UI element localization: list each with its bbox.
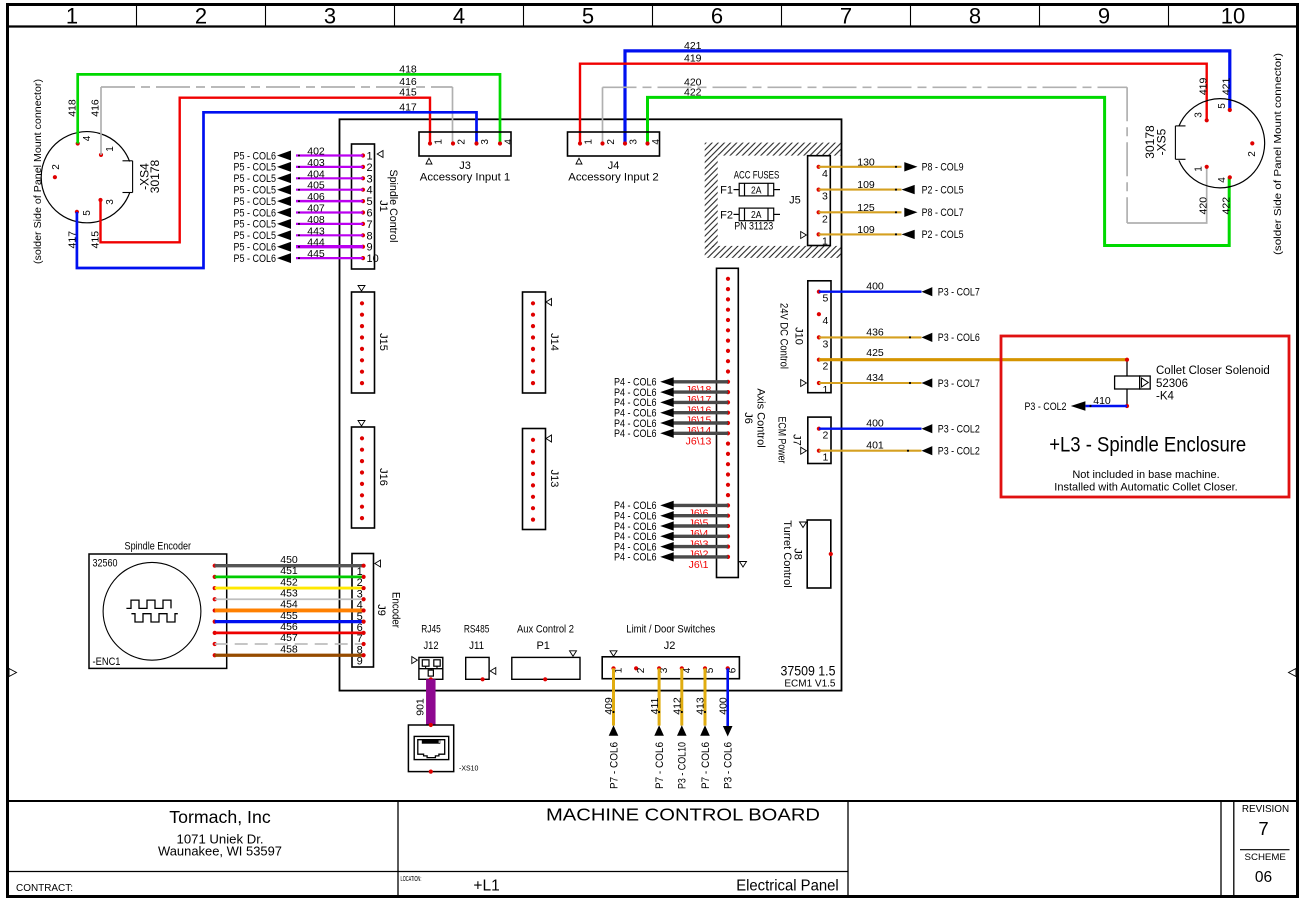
ACC fuses hatched enclosure [705,143,841,156]
svg-text:10: 10 [1221,4,1245,29]
wire 444 purple J1.9 to P5 - COL6 [296,245,363,248]
wire J6\17 to P4 - COL6 [673,390,728,393]
svg-text:P5 - COL5: P5 - COL5 [234,173,277,185]
svg-text:425: 425 [866,347,884,359]
svg-text:Installed with Automatic Colle: Installed with Automatic Collet Closer. [1054,482,1237,494]
svg-text:-XS10: -XS10 [459,766,479,773]
J11 pin dot [481,677,485,681]
svg-text:Spindle Encoder: Spindle Encoder [125,541,192,553]
svg-text:417: 417 [399,101,417,113]
J10 pin 2 [817,358,821,362]
connector J11 box [466,657,489,679]
J6 pin dot 5 [726,318,730,322]
wire J6\1 to P4 - COL6 [673,555,728,558]
svg-text:2: 2 [823,361,829,373]
svg-text:P3 - COL2: P3 - COL2 [1025,401,1067,413]
svg-text:LOCATION:: LOCATION: [401,874,422,883]
wire 400 blue J2.6 to P3 - COL6 [726,668,729,726]
wire 400 blue J7.2 to P3 - COL2 [819,428,922,430]
J3 pin 4 [498,141,502,145]
svg-text:419: 419 [1198,77,1210,95]
J16 pin 5 [360,482,364,486]
wire 408 purple J1.7 to P5 - COL5 [296,223,363,225]
J6 pin dot 11 [726,380,730,384]
wire 402 purple J1.1 to P5 - COL6 [296,154,363,156]
J5 pin 4 [817,165,821,169]
wire 452 encoder to J9.3 [215,587,364,590]
J7 pin 2 [817,427,821,431]
svg-text:52306: 52306 [1156,378,1188,390]
connector J10 box [808,281,831,393]
svg-text:Electrical Panel: Electrical Panel [736,878,839,895]
svg-text:9: 9 [1098,4,1110,29]
J2 pin 5 [703,666,707,670]
left fold mark [9,669,17,677]
J15 pin 6 [360,358,364,362]
wire J6\15 to P4 - COL6 [673,411,728,414]
J16 marker triangle [358,421,365,427]
svg-text:F1: F1 [720,185,733,197]
J9 pin 1 [362,564,366,568]
svg-text:+L1: +L1 [473,878,499,895]
J1 pin 6 [361,210,365,214]
svg-text:F2: F2 [720,209,733,221]
svg-text:J6: J6 [742,412,754,424]
svg-text:P5 - COL5: P5 - COL5 [234,196,277,208]
svg-text:P7 - COL6: P7 - COL6 [608,742,620,789]
svg-text:Waunakee, WI 53597: Waunakee, WI 53597 [158,845,282,859]
J10 marker triangle [801,380,807,387]
wire 406 purple J1.5 to P5 - COL5 [296,200,363,203]
J13 pin 5 [531,483,535,487]
svg-text:J6\13: J6\13 [686,435,712,447]
svg-text:J15: J15 [377,333,389,351]
svg-text:J16: J16 [377,468,389,486]
svg-text:9: 9 [357,656,363,668]
svg-text:PN 31123: PN 31123 [734,221,773,233]
J3 pin 2 [451,141,455,145]
J5 pin 3 [817,188,821,192]
svg-text:J10: J10 [792,327,804,345]
J6 pin dot 7 [726,339,730,343]
wire 125 gold J5.2 to P8 - COL7 [819,211,902,213]
svg-text:P3 - COL2: P3 - COL2 [938,446,980,458]
J6 pin dot 17 [726,442,730,446]
svg-text:RJ45: RJ45 [421,624,441,636]
svg-text:P3 - COL10: P3 - COL10 [677,742,689,789]
svg-text:Spindle Control: Spindle Control [387,170,399,243]
J14 pin 1 [531,301,535,305]
svg-text:8: 8 [367,230,373,242]
svg-text:1: 1 [66,4,78,29]
J6 pin dot 22 [726,493,730,497]
encoder pin 5 dot [213,608,217,612]
wire 458 encoder to J9.9 [215,654,364,657]
svg-text:3: 3 [324,4,336,29]
svg-text:J14: J14 [548,333,560,351]
encoder pin 8 dot [213,642,217,646]
svg-text:458: 458 [280,643,298,655]
J6 pin dot 16 [726,431,730,435]
J3 pin 1 [428,141,432,145]
encoder quadrature waveform A [126,600,171,608]
svg-text:P8 - COL7: P8 - COL7 [922,207,964,219]
svg-text:400: 400 [866,418,884,430]
encoder disc circle [103,562,201,660]
svg-text:4: 4 [822,168,828,180]
connector J3 box [419,132,511,156]
svg-text:444: 444 [307,237,325,249]
svg-text:2: 2 [1247,151,1258,157]
J6 pin dot 14 [726,411,730,415]
svg-text:421: 421 [684,40,702,52]
J5 pin 2 [817,210,821,214]
J6 pin dot 13 [726,400,730,404]
svg-text:5: 5 [823,293,829,305]
svg-text:7: 7 [1258,818,1268,839]
encoder pin 3 dot [213,586,217,590]
J10 pin 1 [817,381,821,385]
connector J3 marker triangle [426,158,432,164]
J2 marker triangle [610,651,617,657]
svg-text:RS485: RS485 [464,624,490,636]
J9 pin 5 [362,608,366,612]
J2 pin 4 [680,666,684,670]
svg-text:CONTRACT:: CONTRACT: [16,883,73,894]
connector J9 box [352,554,374,668]
J10 pin 3 [817,335,821,339]
wire J6\16 to P4 - COL6 [673,401,728,404]
J15 pin 1 [360,301,364,305]
svg-text:422: 422 [684,86,702,98]
svg-text:J12: J12 [424,640,439,652]
svg-text:3: 3 [480,139,491,145]
wire 418 green XS4.4 to J3.4 [78,74,500,143]
J2 pin 1 [611,666,615,670]
svg-text:Encoder: Encoder [390,592,402,628]
wire 436 gold J10.3 to P3 - COL6 [819,336,922,338]
svg-text:P3 - COL6: P3 - COL6 [938,332,980,344]
svg-text:109: 109 [857,224,875,236]
svg-text:24V DC Control: 24V DC Control [777,303,789,369]
svg-text:REVISION: REVISION [1242,804,1289,815]
J15 pin 3 [360,324,364,328]
svg-text:6: 6 [367,208,373,220]
connector J4 box [568,132,660,156]
svg-text:-K4: -K4 [1156,391,1175,403]
J6 pin dot 6 [726,328,730,332]
svg-text:5: 5 [582,4,594,29]
svg-text:P3 - COL2: P3 - COL2 [938,424,980,436]
wire 419 red J4.1 to XS5.3 [580,64,1207,144]
svg-text:2: 2 [367,162,373,174]
connector XS4 body circle [41,132,129,223]
svg-text:410: 410 [1093,395,1111,407]
svg-text:4: 4 [503,139,514,145]
encoder quadrature waveform B [131,614,177,622]
svg-text:401: 401 [866,440,884,452]
J1 pin 4 [361,188,365,192]
svg-text:P5 - COL6: P5 - COL6 [234,253,277,265]
wire 420 gray J4.2 to XS5.1 [602,87,604,143]
J6 pin dot 15 [726,421,730,425]
svg-text:403: 403 [307,157,325,169]
svg-text:3: 3 [105,199,116,205]
J6 pin dot 19 [726,462,730,466]
J2 pin 3 [657,666,661,670]
J15 pin 8 [360,381,364,385]
collet closer solenoid K4 symbol [1126,360,1128,406]
svg-text:30178: 30178 [148,159,162,193]
wire 109 gold J5.1 to P2 - COL5 [819,233,902,235]
svg-text:416: 416 [90,99,102,117]
svg-text:1: 1 [1194,166,1205,172]
svg-text:400: 400 [717,697,729,715]
svg-text:1: 1 [823,452,829,464]
J10 pin 4 [817,312,821,316]
wire J6\3 to P4 - COL6 [673,535,728,538]
J6 pin dot 4 [726,308,730,312]
svg-text:2: 2 [606,139,617,145]
svg-text:J9: J9 [375,604,387,616]
svg-text:406: 406 [307,191,325,203]
J12 contact square left [422,660,429,666]
wire 407 purple J1.6 to P5 - COL6 [296,211,363,213]
J1 pin 8 [361,233,365,237]
svg-text:130: 130 [857,156,875,168]
svg-text:P1: P1 [536,640,549,652]
svg-text:407: 407 [307,203,325,215]
svg-text:ECM1 V1.5: ECM1 V1.5 [784,679,836,690]
J6 pin dot 8 [726,349,730,353]
svg-text:434: 434 [866,372,884,384]
spindle enclosure red outline box +L3 [1001,336,1289,497]
J15 pin 7 [360,370,364,374]
wire J6\4 to P4 - COL6 [673,524,728,527]
XS10 jack plug face [418,740,445,758]
svg-text:32560: 32560 [93,558,118,570]
J14 pin 8 [531,381,535,385]
connector J1 marker triangle [377,151,383,158]
wire 413 yellow J2 to P7 - COL6 [704,668,707,725]
svg-text:4: 4 [1217,177,1228,183]
J13 pin 3 [531,461,535,465]
J8 pin dot [829,552,833,556]
J9 pin 8 [362,642,366,646]
J16 pin 2 [360,448,364,452]
J9 pin 4 [362,597,366,601]
svg-text:2: 2 [51,164,62,170]
svg-text:6: 6 [711,4,723,29]
J9 marker triangle [375,560,381,567]
J14 pin 6 [531,358,535,362]
J12 marker triangle [412,657,418,664]
J6 pin dot 27 [726,545,730,549]
svg-text:37509 1.5: 37509 1.5 [781,663,836,679]
wire 421 blue J4.3 to XS5.5 [625,51,1230,144]
connector J6 marker triangle [740,562,747,568]
J6 pin dot 18 [726,452,730,456]
wire 109 gold J5.3 to P2 - COL5 [819,189,902,191]
connector J8 box [807,520,831,588]
J6 pin dot 24 [726,514,730,518]
spindle encoder box ENC1 [89,554,227,668]
wire J6\6 to P4 - COL6 [673,504,728,507]
svg-text:Accessory Input 2: Accessory Input 2 [568,172,659,184]
svg-text:2: 2 [822,213,828,225]
XS5 pin 5 [1228,108,1232,112]
wire 450 encoder to J9.1 [215,564,364,567]
wire 453 encoder to J9.4 [215,598,364,600]
J16 pin 4 [360,470,364,474]
J16 pin 3 [360,459,364,463]
svg-text:P3 - COL6: P3 - COL6 [723,742,735,789]
svg-text:P4 - COL6: P4 - COL6 [614,552,657,564]
svg-text:420: 420 [1198,197,1210,215]
svg-text:3: 3 [822,191,828,203]
J5 marker triangle [801,232,807,239]
J6 pin dot 9 [726,359,730,363]
svg-text:-XS5: -XS5 [1154,128,1168,155]
svg-text:421: 421 [1221,77,1233,95]
svg-text:405: 405 [307,180,325,192]
connector J12 box [419,657,443,679]
connector J1 box [352,144,375,269]
J7 pin 1 [817,449,821,453]
J13 pin 4 [531,472,535,476]
svg-text:7: 7 [840,4,852,29]
svg-text:6: 6 [728,667,739,673]
J15 marker triangle [358,286,365,292]
svg-text:P4 - COL6: P4 - COL6 [614,428,657,440]
svg-text:J2: J2 [664,640,676,652]
column header strip [8,25,1298,27]
J13 pin 1 [531,438,535,442]
svg-text:Limit / Door Switches: Limit / Door Switches [626,624,715,636]
XS10 jack contacts bar [422,740,441,744]
svg-text:3: 3 [367,173,373,185]
svg-text:P5 - COL5: P5 - COL5 [234,185,277,197]
svg-text:109: 109 [857,179,875,191]
svg-text:2A: 2A [751,184,762,196]
svg-text:1: 1 [105,146,116,152]
connector J2 box [602,657,739,679]
svg-text:445: 445 [307,248,325,260]
J6 pin dot 25 [726,524,730,528]
XS4 pin 5 [75,210,79,214]
J2 pin 6 [726,666,730,670]
wire 454 encoder to J9.5 [215,609,364,613]
XS10 bottom pin dot [429,770,433,774]
J13 pin 6 [531,495,535,499]
XS5 pin 3 [1205,118,1209,122]
connector J13 box [523,429,546,530]
svg-text:4: 4 [82,135,93,141]
J6 pin dot 2 [726,287,730,291]
svg-text:1: 1 [614,667,625,673]
wire 456 encoder to J9.7 [215,631,364,634]
svg-text:436: 436 [866,326,884,338]
J6 pin dot 1 [726,277,730,281]
wire 403 purple J1.2 to P5 - COL5 [296,166,363,168]
svg-text:P7 - COL6: P7 - COL6 [700,742,712,789]
J9 pin 3 [362,586,366,590]
J12 pin dot [429,677,433,681]
J7 marker triangle [801,447,807,454]
svg-text:Collet Closer Solenoid: Collet Closer Solenoid [1156,365,1270,377]
svg-text:Tormach, Inc: Tormach, Inc [169,807,271,827]
main control board outline ECM1 [340,119,842,690]
connector J6 box [717,268,739,577]
encoder pin 7 dot [213,631,217,635]
title block vertical dividers [397,801,399,895]
J14 pin 5 [531,347,535,351]
J9 pin 6 [362,620,366,624]
svg-text:2: 2 [195,4,207,29]
wire J6\13 to P4 - COL6 [673,432,728,435]
svg-text:Turret Control: Turret Control [781,520,793,587]
svg-text:J3: J3 [459,160,471,172]
svg-text:8: 8 [969,4,981,29]
J1 pin 10 [361,256,365,260]
J16 pin 8 [360,516,364,520]
wire 404 purple J1.3 to P5 - COL5 [296,177,363,179]
svg-text:J11: J11 [469,640,484,652]
encoder pin 1 dot [213,564,217,568]
wire 416 gray XS4.1 to J3.2 [100,87,102,155]
svg-text:9: 9 [367,242,373,254]
svg-text:453: 453 [280,587,298,599]
J6 pin dot 28 [726,555,730,559]
svg-text:P2 - COL5: P2 - COL5 [922,229,964,241]
J6 pin dot 12 [726,390,730,394]
connector P1 box [512,657,580,679]
XS4 pin 2 [53,175,57,179]
right fold mark [1289,669,1297,677]
svg-text:4: 4 [367,185,373,197]
J13 pin 7 [531,506,535,510]
J1 pin 3 [361,176,365,180]
svg-text:P5 - COL6: P5 - COL6 [234,150,277,162]
svg-text:-ENC1: -ENC1 [93,656,121,668]
svg-text:P5 - COL5: P5 - COL5 [234,162,277,174]
connector XS4 keyway notch [123,160,133,162]
svg-text:400: 400 [866,281,884,293]
J10 pin 5 [817,290,821,294]
J12 bus bar [419,668,442,670]
J4 pin 4 [645,141,649,145]
J12 contact square right [434,660,440,666]
connector J5 box [808,156,831,246]
J1 pin 2 [361,165,365,169]
svg-text:4: 4 [453,4,465,29]
svg-text:4: 4 [651,139,662,145]
svg-text:(solder Side of Panel Mount co: (solder Side of Panel Mount connector) [32,79,44,264]
J6 pin dot 23 [726,503,730,507]
J1 pin 9 [361,245,365,249]
J1 pin 5 [361,199,365,203]
svg-text:901: 901 [415,698,427,716]
title block top line [8,800,1298,802]
wire 401 gold J7.1 to P3 - COL2 [819,450,922,452]
wire 415 red XS4.3 to J3.1 [101,98,431,243]
J12 contact square center [428,670,433,676]
svg-text:06: 06 [1255,869,1272,886]
connector J7 box [808,417,831,463]
svg-text:415: 415 [399,87,417,99]
svg-text:5: 5 [705,667,716,673]
svg-text:Not included in base machine.: Not included in base machine. [1072,469,1219,481]
